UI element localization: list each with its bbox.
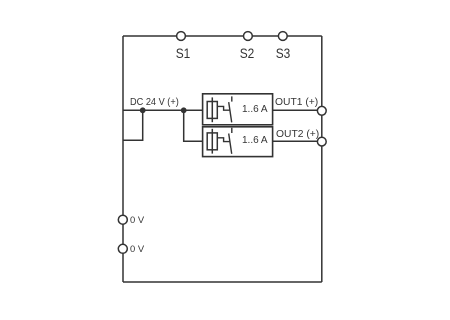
label S1 [166, 46, 200, 60]
wire top bus [123, 35, 322, 37]
fuse F2 [207, 129, 217, 154]
terminal 0V b [118, 244, 127, 253]
label 0 V a [130, 215, 144, 224]
label S2 [230, 46, 264, 60]
terminal 0V a [118, 215, 127, 224]
label OUT2 (+) [276, 130, 319, 140]
label OUT1 (+) [275, 98, 318, 108]
wire OUT2 [273, 140, 322, 142]
terminal OUT2 [317, 137, 326, 146]
wire bottom bus [123, 281, 322, 283]
wire right rail [321, 36, 323, 282]
terminal S1 [177, 32, 186, 41]
label DC 24 V (+) [130, 98, 179, 108]
node junction dot B [181, 107, 187, 113]
breaker module CB1 box [203, 94, 273, 125]
breaker contact Q2 [217, 128, 232, 154]
breaker contact Q1 [217, 96, 232, 122]
label 0 V b [130, 244, 144, 253]
fuse F1 [207, 97, 217, 122]
breaker module CB2 box [203, 127, 273, 157]
wire left rail [122, 36, 124, 282]
terminal S3 [278, 32, 287, 41]
wire branch to channel 2 [184, 110, 203, 141]
label value 1..6 A (CB2) [242, 136, 268, 146]
wire DC 24V feed [123, 109, 203, 111]
label value 1..6 A (CB1) [242, 105, 268, 115]
label S3 [266, 46, 300, 60]
terminal S2 [244, 32, 253, 41]
terminal OUT1 [317, 106, 326, 115]
wire OUT1 [273, 109, 322, 111]
node junction dot A [140, 107, 146, 113]
wire bridge loop [123, 110, 143, 140]
